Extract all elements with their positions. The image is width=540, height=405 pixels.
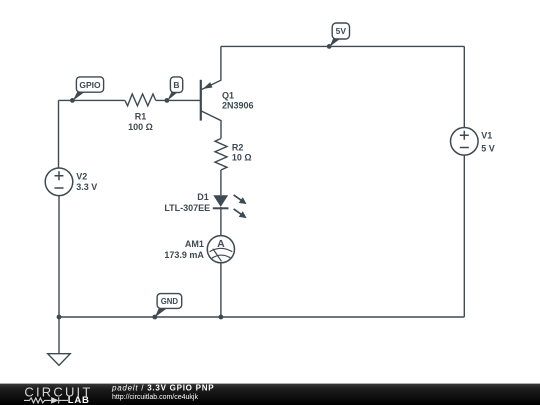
voltage source V2 xyxy=(45,168,73,196)
flag GPIO xyxy=(73,77,104,101)
transistor Q1 emitter xyxy=(202,46,221,89)
resistor R1 xyxy=(125,94,156,106)
svg-text:V2: V2 xyxy=(76,171,87,181)
LED D1 cathode bar xyxy=(213,207,229,209)
svg-text:R1: R1 xyxy=(135,112,147,122)
wire: D1 to AM1 xyxy=(220,207,222,236)
LED D1 triangle xyxy=(213,195,228,207)
svg-text:B: B xyxy=(173,80,179,90)
flag GND xyxy=(155,294,182,318)
wire: top-left horizontal GPIO rail xyxy=(59,99,125,101)
LED D1 light arrow 2 xyxy=(234,209,247,218)
node junction dot left corner xyxy=(57,315,62,320)
transistor Q1 emitter arrow xyxy=(203,82,213,89)
svg-text:5V: 5V xyxy=(336,26,347,36)
svg-text:LTL-307EE: LTL-307EE xyxy=(164,203,210,213)
node B junction dot xyxy=(165,98,170,103)
wire: R1 to base xyxy=(156,99,200,101)
svg-text:2N3906: 2N3906 xyxy=(222,101,254,111)
svg-text:Q1: Q1 xyxy=(222,91,234,101)
wire: bottom ground rail xyxy=(59,316,465,318)
node junction dot ammeter-ground xyxy=(219,315,224,320)
flag B xyxy=(167,77,182,101)
svg-text:D1: D1 xyxy=(197,192,209,202)
footer logo diode triangle xyxy=(51,397,59,404)
wire: R2 to D1 xyxy=(220,170,222,195)
svg-text:100 Ω: 100 Ω xyxy=(128,122,153,132)
transistor Q1 collector xyxy=(201,111,221,139)
transistor Q1 base bar xyxy=(200,80,202,121)
LED D1 light arrow 1 xyxy=(234,195,247,204)
svg-text:http://circuitlab.com/ce4ukjk: http://circuitlab.com/ce4ukjk xyxy=(112,394,198,401)
flag 5V xyxy=(330,23,350,47)
svg-text:10 Ω: 10 Ω xyxy=(232,153,252,163)
svg-text:R2: R2 xyxy=(232,142,244,152)
svg-text:3.3 V: 3.3 V xyxy=(76,182,97,192)
svg-text:173.9 mA: 173.9 mA xyxy=(164,250,204,260)
svg-text:AM1: AM1 xyxy=(185,239,204,249)
ground symbol xyxy=(48,317,70,365)
footer bar xyxy=(0,384,540,405)
voltage source V1 xyxy=(451,128,479,156)
svg-text:V1: V1 xyxy=(481,131,492,141)
node GPIO junction dot xyxy=(70,98,75,103)
wire: top 5V rail xyxy=(221,45,464,47)
wire: right rail lower xyxy=(463,155,465,317)
ammeter AM1 xyxy=(207,236,234,263)
svg-text:GPIO: GPIO xyxy=(79,80,101,90)
svg-text:padelt / 3.3V GPIO PNP: padelt / 3.3V GPIO PNP xyxy=(111,384,214,393)
wire: AM1 to ground rail xyxy=(220,263,222,317)
wire: right rail upper xyxy=(463,46,465,127)
resistor R2 xyxy=(215,139,227,171)
footer logo resistor-diode glyph xyxy=(24,397,68,403)
node GND junction dot xyxy=(152,315,157,320)
svg-text:GND: GND xyxy=(161,297,179,306)
node 5V junction dot xyxy=(327,44,332,49)
wire: left rail upper xyxy=(58,100,60,168)
svg-text:5 V: 5 V xyxy=(481,144,495,154)
wire: left rail lower xyxy=(58,196,60,317)
svg-text:LAB: LAB xyxy=(68,395,90,405)
